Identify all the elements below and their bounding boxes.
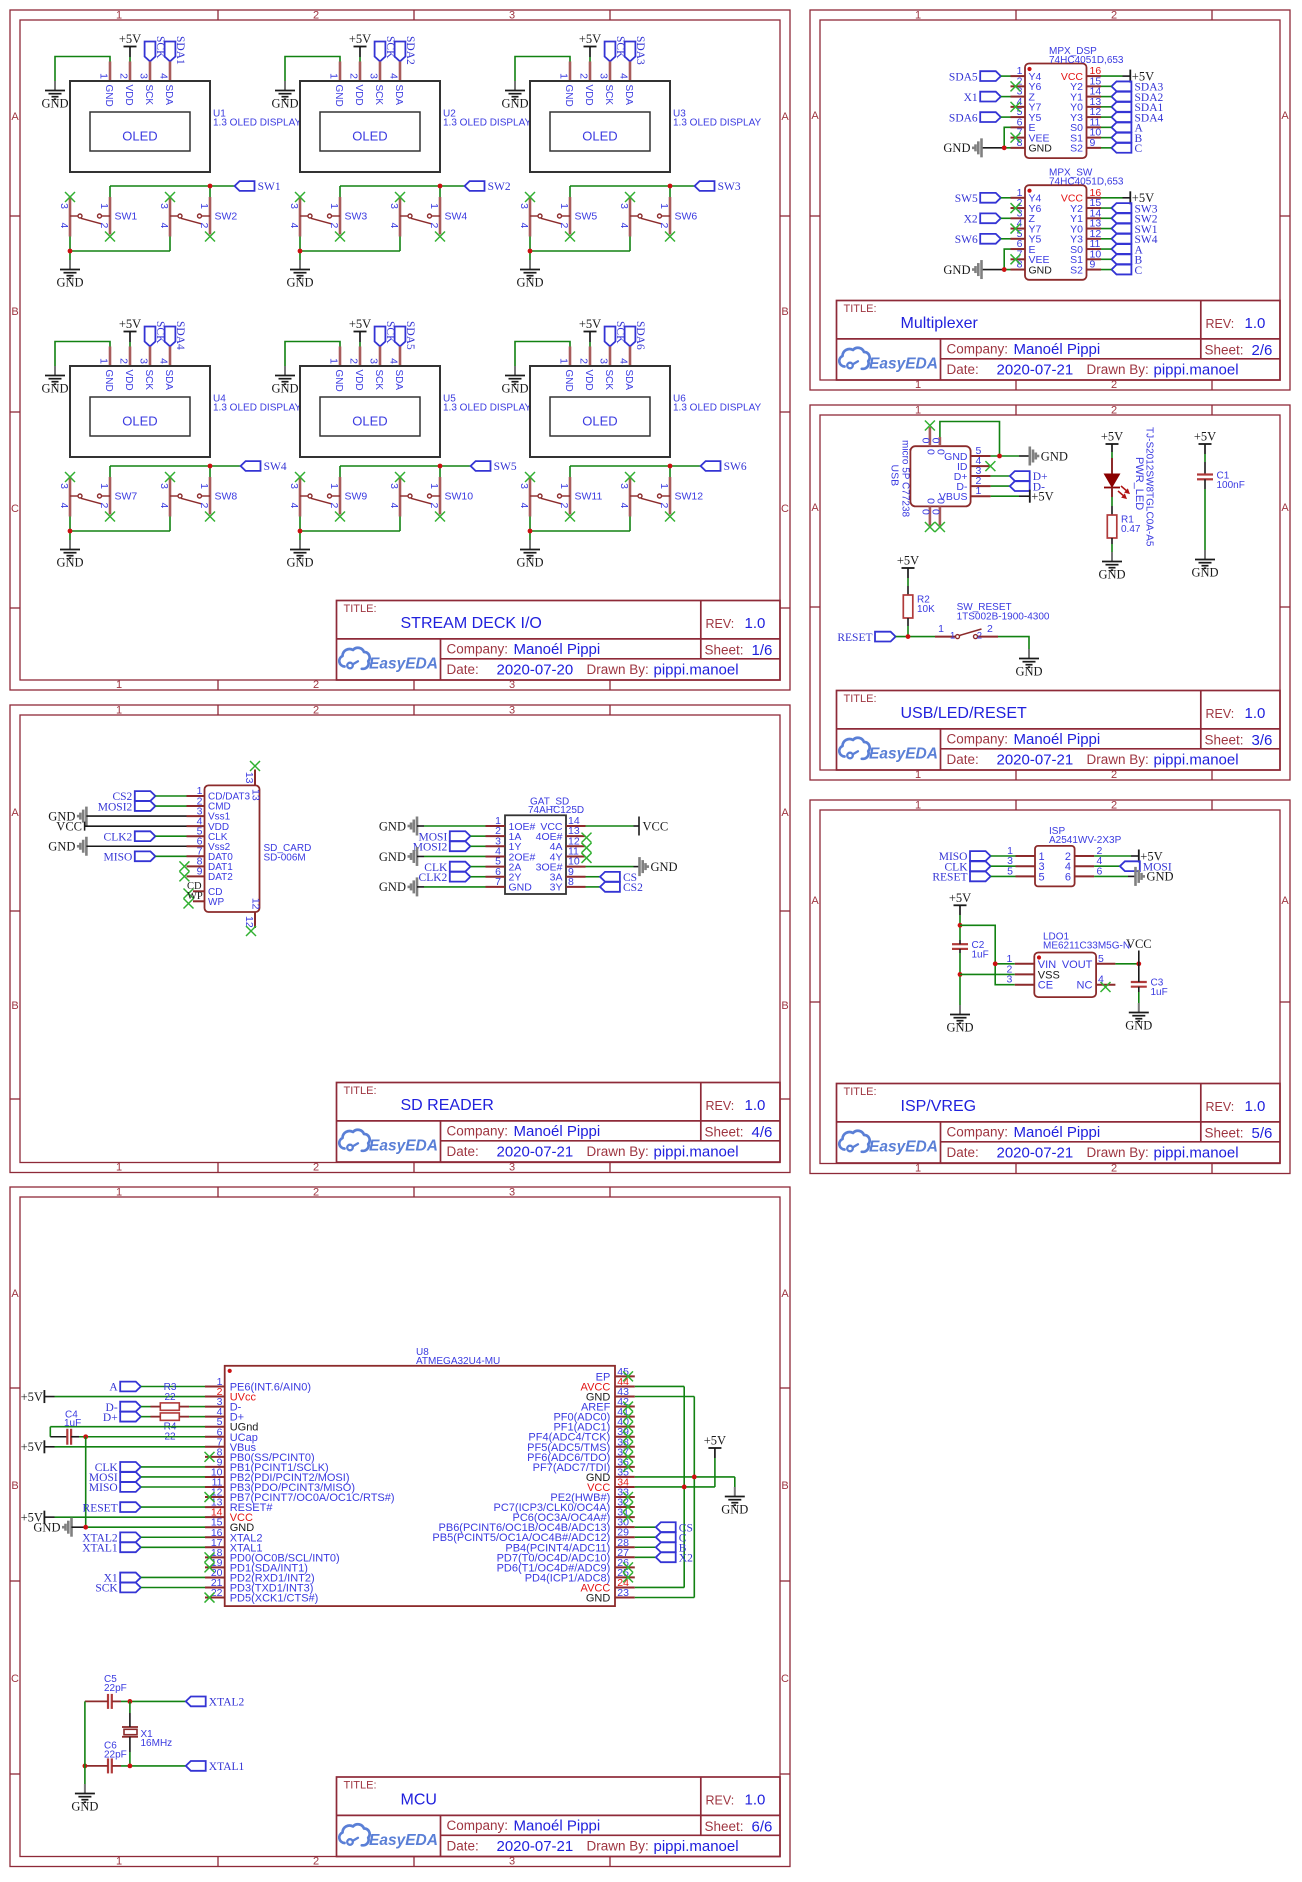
wire SW_RESET to GND xyxy=(998,637,1029,649)
svg-text:3: 3 xyxy=(138,358,150,364)
svg-text:SDA: SDA xyxy=(163,370,174,391)
svg-text:Drawn By:: Drawn By: xyxy=(1087,752,1149,767)
wire pin1 U1 to GND xyxy=(55,57,110,82)
svg-text:2: 2 xyxy=(198,503,210,509)
wire XTAL1 xyxy=(141,1546,205,1548)
svg-text:GND: GND xyxy=(41,97,68,111)
svg-text:EasyEDA: EasyEDA xyxy=(869,1139,938,1156)
svg-text:4: 4 xyxy=(618,223,630,229)
wire VIN xyxy=(995,963,1015,965)
wire GND pin15 xyxy=(72,1526,206,1528)
svg-text:SCK: SCK xyxy=(373,85,384,106)
svg-text:8: 8 xyxy=(568,876,574,888)
svg-text:Manoél Pippi: Manoél Pippi xyxy=(514,1123,601,1140)
ground GND (C3) xyxy=(1125,1003,1152,1033)
svg-text:1: 1 xyxy=(116,705,122,717)
svg-text:VCC: VCC xyxy=(643,819,669,833)
svg-text:4: 4 xyxy=(388,358,400,364)
svg-text:C: C xyxy=(1135,265,1143,277)
svg-text:GND: GND xyxy=(103,370,114,392)
net flag SW2 xyxy=(465,181,511,193)
svg-text:SDA: SDA xyxy=(623,370,634,391)
svg-text:GND: GND xyxy=(1147,870,1174,884)
wire USB shield to GND xyxy=(940,422,1000,457)
net flag SDA3 (MPX_DSP pin 15) xyxy=(1112,81,1164,93)
junction on net SW2 xyxy=(438,184,443,189)
svg-text:A: A xyxy=(781,1288,789,1300)
wire VBus xyxy=(44,1446,205,1448)
junction GND rail xyxy=(528,529,533,534)
+5V supply (C1) xyxy=(1194,430,1216,445)
svg-text:1: 1 xyxy=(98,483,110,489)
svg-text:1: 1 xyxy=(915,10,921,22)
ground GND (OLED U4) xyxy=(41,366,68,396)
svg-text:SDA: SDA xyxy=(393,370,404,391)
svg-text:SW5: SW5 xyxy=(955,193,978,205)
net flag SW5 (MPX_SW pin 1) xyxy=(955,193,1001,205)
svg-text:GND: GND xyxy=(721,1503,748,1517)
wire ISP 6 to GND xyxy=(1094,875,1135,877)
ground GND (OLED U6) xyxy=(501,366,528,396)
switch SW7 xyxy=(70,477,110,517)
svg-text:1.3 OLED DISPLAY: 1.3 OLED DISPLAY xyxy=(213,403,302,414)
svg-text:7: 7 xyxy=(495,876,501,888)
svg-text:EasyEDA: EasyEDA xyxy=(869,356,938,373)
svg-text:2: 2 xyxy=(558,503,570,509)
svg-text:2: 2 xyxy=(98,223,110,229)
svg-text:GND: GND xyxy=(333,370,344,392)
title block sheet 1 xyxy=(337,601,781,681)
svg-text:5: 5 xyxy=(1098,953,1104,965)
svg-text:SW3: SW3 xyxy=(345,211,368,223)
svg-text:A: A xyxy=(811,502,819,514)
wire VSS xyxy=(960,973,1015,975)
ground GND (Vss2) xyxy=(48,837,86,856)
wire net SW6 (top rail) xyxy=(570,466,701,477)
capacitor C2 1uF xyxy=(952,940,989,961)
svg-text:4: 4 xyxy=(388,73,400,79)
svg-text:ATMEGA32U4-MU: ATMEGA32U4-MU xyxy=(416,1356,500,1367)
svg-text:A: A xyxy=(811,895,819,907)
svg-text:1: 1 xyxy=(658,203,670,209)
no-connect marks SW4 xyxy=(395,192,445,242)
svg-text:1.0: 1.0 xyxy=(745,615,766,632)
wire GND pin35 xyxy=(635,1477,735,1487)
net flag C (pin29) xyxy=(635,1536,656,1538)
wire VOUT to VCC node xyxy=(1115,963,1138,965)
OLED display U2 body xyxy=(300,81,440,172)
wire XTAL1 row xyxy=(85,1765,186,1767)
svg-text:OLED: OLED xyxy=(582,414,617,429)
svg-text:2: 2 xyxy=(313,1162,319,1174)
svg-text:2: 2 xyxy=(1111,800,1117,812)
pin names MPX_SW xyxy=(1029,193,1084,277)
svg-text:0: 0 xyxy=(930,509,942,515)
wire pin1 U3 to GND xyxy=(515,57,570,82)
pin numbers GAT_SD xyxy=(495,815,580,888)
svg-text:3Y: 3Y xyxy=(550,882,563,894)
svg-text:22: 22 xyxy=(211,1587,223,1599)
svg-text:B: B xyxy=(11,306,18,318)
pin names GND VDD SCK SDA (U4) xyxy=(103,370,174,392)
svg-text:2: 2 xyxy=(658,223,670,229)
svg-text:Manoél Pippi: Manoél Pippi xyxy=(514,641,601,658)
svg-text:GND: GND xyxy=(1041,449,1068,463)
wire CLK xyxy=(141,1466,205,1468)
ground GND (OLED U3) xyxy=(501,81,528,111)
designator U8 ATMEGA32U4-MU xyxy=(416,1347,500,1367)
svg-text:2: 2 xyxy=(198,223,210,229)
wire E to GND net (MPX_SW) xyxy=(982,249,1011,269)
svg-text:1: 1 xyxy=(328,483,340,489)
svg-text:RESET: RESET xyxy=(932,872,967,884)
svg-text:1/6: 1/6 xyxy=(752,642,773,659)
svg-text:GND: GND xyxy=(56,276,83,290)
wire Vss2 xyxy=(86,845,186,847)
pin names SD_CARD xyxy=(208,789,262,910)
svg-text:C: C xyxy=(781,1673,789,1685)
switch SW9 xyxy=(300,477,340,517)
wire XTAL2 row xyxy=(85,1700,186,1702)
svg-text:WP: WP xyxy=(187,891,203,902)
wire pin1 U2 to GND xyxy=(285,57,340,82)
svg-text:+5V: +5V xyxy=(897,554,919,568)
svg-text:2020-07-21: 2020-07-21 xyxy=(497,1838,574,1855)
pin numbers MPX_DSP xyxy=(1017,65,1102,149)
svg-text:A: A xyxy=(1281,895,1289,907)
svg-text:Sheet:: Sheet: xyxy=(705,643,744,658)
ground GND (switches) xyxy=(56,540,83,570)
svg-text:S2: S2 xyxy=(1070,264,1083,276)
wire +5V to C1 xyxy=(1204,444,1206,475)
svg-text:EasyEDA: EasyEDA xyxy=(369,1138,438,1155)
svg-text:pippi.manoel: pippi.manoel xyxy=(654,1144,739,1161)
IC LDO1 ME6211C33M5G-N xyxy=(1015,953,1116,998)
svg-text:3: 3 xyxy=(518,483,530,489)
wire XTAL2 xyxy=(141,1536,205,1538)
netlabel VCC xyxy=(1126,937,1152,964)
svg-text:TJ-S2012SW8TGLC0A-A5: TJ-S2012SW8TGLC0A-A5 xyxy=(1143,427,1154,547)
wire 2OE# xyxy=(417,855,486,857)
pin numbers SW9 xyxy=(288,483,340,508)
+5V supply (VBUS) xyxy=(1030,490,1054,504)
sheet 1 frame: STREAM DECK I/O xyxy=(10,10,790,690)
net flag CS2 xyxy=(600,882,643,894)
svg-text:3: 3 xyxy=(368,73,380,79)
net flag X1 (pin20) xyxy=(104,1573,141,1585)
svg-text:GND: GND xyxy=(946,1021,973,1035)
sheet 3 frame: USB/LED/RESET xyxy=(810,405,1290,780)
svg-text:Date:: Date: xyxy=(447,1144,479,1159)
wire B xyxy=(1101,258,1112,260)
wire net SW3 (top rail) xyxy=(570,186,695,197)
svg-text:GND: GND xyxy=(379,850,406,864)
junction GND (MPX_SW) xyxy=(1002,267,1007,272)
net flag SDA6 (MPX_DSP pin 5) xyxy=(949,112,1001,124)
svg-text:GND: GND xyxy=(501,97,528,111)
svg-text:SW2: SW2 xyxy=(215,211,238,223)
svg-text:C: C xyxy=(11,503,19,515)
sheet 6 frame: MCU xyxy=(10,1187,790,1867)
svg-text:DAT2: DAT2 xyxy=(208,872,233,883)
net flag CLK (ISP 3) xyxy=(945,861,991,873)
svg-text:1: 1 xyxy=(915,800,921,812)
net flag SW3 xyxy=(695,181,741,193)
svg-text:12: 12 xyxy=(243,916,255,928)
svg-text:VDD: VDD xyxy=(583,370,594,391)
wire RESET xyxy=(991,875,1016,877)
net flag SW2 (MPX_SW pin 14) xyxy=(1112,213,1158,225)
svg-text:1: 1 xyxy=(558,203,570,209)
+5V supply (LED branch) xyxy=(1101,430,1123,445)
net flag MOSI (1A) xyxy=(419,831,471,843)
wire SW5 xyxy=(1001,197,1011,199)
svg-text:CE: CE xyxy=(1038,980,1053,992)
pin numbers SW10 xyxy=(388,483,440,508)
no-connect marks U8 right xyxy=(623,1371,633,1582)
no-connect marks SW10 xyxy=(395,472,445,522)
no-connect marks SW8 xyxy=(165,472,215,522)
net flag RESET (ISP 5) xyxy=(932,872,990,884)
IC U8 ATMEGA32U4-MU body xyxy=(205,1366,635,1606)
svg-text:22pF: 22pF xyxy=(104,1683,127,1694)
svg-text:OLED: OLED xyxy=(582,129,617,144)
junction on net SW5 xyxy=(438,464,443,469)
svg-text:B: B xyxy=(781,1480,788,1492)
wire SW3 xyxy=(1101,207,1112,209)
svg-text:GND: GND xyxy=(563,370,574,392)
ground GND (crystal) xyxy=(71,1784,98,1814)
svg-text:3: 3 xyxy=(618,203,630,209)
svg-text:REV:: REV: xyxy=(1206,317,1235,331)
svg-text:9: 9 xyxy=(1090,137,1096,149)
svg-text:2: 2 xyxy=(118,358,130,364)
designator ISP A2541WV-2X3P xyxy=(1049,826,1122,846)
designator U6 / 1.3 OLED DISPLAY xyxy=(673,394,762,414)
wire D- xyxy=(991,485,1010,487)
svg-text:1: 1 xyxy=(428,203,440,209)
svg-text:REV:: REV: xyxy=(1206,707,1235,721)
capacitor C3 1uF xyxy=(1131,978,1168,999)
pin names GND VDD SCK SDA (U3) xyxy=(563,85,634,107)
title block sheet 2 xyxy=(837,301,1281,381)
wire +5V to LED xyxy=(1111,444,1113,474)
ground GND (C1) xyxy=(1191,550,1218,580)
resistor R3 22 xyxy=(160,1382,179,1410)
junction USB GND xyxy=(997,454,1002,459)
svg-text:2: 2 xyxy=(313,1856,319,1868)
svg-text:1.3 OLED DISPLAY: 1.3 OLED DISPLAY xyxy=(213,118,302,129)
pin names GND VDD SCK SDA (U1) xyxy=(103,85,174,107)
wire 1A xyxy=(470,835,485,837)
no-connect marks pins 2,4,7 (MPX_SW) xyxy=(1011,203,1021,264)
switch SW_RESET 1TS002B-1900-4300 xyxy=(935,629,998,639)
svg-text:Drawn By:: Drawn By: xyxy=(1087,362,1149,377)
net flag SDA1 (MPX_DSP pin 13) xyxy=(1112,102,1164,114)
svg-text:ISP/VREG: ISP/VREG xyxy=(901,1098,977,1115)
svg-text:Date:: Date: xyxy=(447,1839,479,1854)
svg-text:GND: GND xyxy=(1125,1019,1152,1033)
svg-text:3: 3 xyxy=(288,203,300,209)
ground GND (switches) xyxy=(286,260,313,290)
net flag MISO (pin11) xyxy=(89,1482,141,1494)
svg-text:Manoél Pippi: Manoél Pippi xyxy=(1014,731,1101,748)
sheet 4 frame: SD READER xyxy=(10,705,790,1173)
wire D+ xyxy=(991,475,1010,477)
wire +5V to pin2 U4 xyxy=(129,332,131,347)
net flag X2 (pin27) xyxy=(635,1556,656,1558)
svg-text:MOSI2: MOSI2 xyxy=(98,801,133,813)
svg-text:Sheet:: Sheet: xyxy=(705,1819,744,1834)
junction GND rail xyxy=(68,249,73,254)
svg-text:C: C xyxy=(1135,143,1143,155)
svg-text:SW12: SW12 xyxy=(675,491,704,503)
svg-text:2: 2 xyxy=(98,503,110,509)
wire ISP 2 to +5V xyxy=(1094,855,1139,857)
svg-text:D+: D+ xyxy=(103,1412,118,1424)
wire VCC pin16 to +5V (MPX_SW) xyxy=(1101,197,1130,199)
pin numbers SW8 xyxy=(158,483,210,508)
svg-text:4: 4 xyxy=(288,223,300,229)
net flag CLK2 xyxy=(104,831,156,843)
wire USB GND pin5 xyxy=(991,455,1030,457)
svg-text:VDD: VDD xyxy=(353,370,364,391)
svg-text:A: A xyxy=(11,807,19,819)
svg-text:2020-07-21: 2020-07-21 xyxy=(497,1144,574,1161)
svg-text:Company:: Company: xyxy=(447,642,509,657)
svg-text:SW3: SW3 xyxy=(718,181,741,193)
svg-text:MCU: MCU xyxy=(401,1792,437,1809)
svg-text:TITLE:: TITLE: xyxy=(344,1085,377,1097)
svg-text:22: 22 xyxy=(164,1392,176,1403)
ground GND (Vss1) xyxy=(48,807,86,826)
net flag SCK (U1) xyxy=(145,36,166,61)
pin numbers SW2 xyxy=(158,203,210,228)
svg-text:1: 1 xyxy=(938,623,944,635)
wire X2 xyxy=(1001,217,1011,219)
wire GND rail (switches) xyxy=(70,517,170,541)
svg-text:3: 3 xyxy=(618,483,630,489)
svg-text:3: 3 xyxy=(509,1856,515,1868)
svg-text:GND: GND xyxy=(56,556,83,570)
wire GND rail (switches) xyxy=(300,237,400,261)
svg-text:SDA6: SDA6 xyxy=(634,321,646,350)
ground GND (MPX_DSP) xyxy=(943,138,981,157)
svg-text:MISO: MISO xyxy=(89,1482,118,1494)
svg-text:13: 13 xyxy=(243,772,255,784)
no-connect marks SW2 xyxy=(165,192,215,242)
svg-text:3: 3 xyxy=(509,705,515,717)
svg-text:3: 3 xyxy=(288,483,300,489)
no-connect marks SW12 xyxy=(625,472,675,522)
resistor R1 0.47 xyxy=(1107,515,1141,539)
svg-text:OLED: OLED xyxy=(352,129,387,144)
junction VOUT xyxy=(1136,961,1141,966)
svg-text:1.0: 1.0 xyxy=(1245,315,1266,332)
net flag C (MPX_SW pin 9) xyxy=(1112,265,1143,277)
crystal X1 16MHz xyxy=(122,1727,172,1749)
svg-text:Manoél Pippi: Manoél Pippi xyxy=(1014,1124,1101,1141)
switch SW5 xyxy=(530,197,570,237)
ground GND (pin10) xyxy=(640,857,678,876)
switch SW3 xyxy=(300,197,340,237)
pins 1-4 of U5 xyxy=(340,347,400,367)
switch SW6 xyxy=(630,197,670,237)
svg-text:VDD: VDD xyxy=(123,370,134,391)
svg-text:Date:: Date: xyxy=(947,362,979,377)
svg-text:Sheet:: Sheet: xyxy=(1205,343,1244,358)
wire SDA3 xyxy=(1101,85,1112,87)
pin names GAT_SD xyxy=(509,821,563,894)
svg-text:2: 2 xyxy=(313,1187,319,1199)
svg-text:+5V: +5V xyxy=(949,891,971,905)
svg-text:3: 3 xyxy=(1006,974,1012,986)
wire net SW1 (top rail) xyxy=(110,186,235,197)
wire D+ through R4 xyxy=(141,1416,205,1418)
wire SDA6 xyxy=(1001,116,1011,118)
svg-text:A: A xyxy=(109,1382,118,1394)
svg-text:Company:: Company: xyxy=(447,1124,509,1139)
svg-text:+5V: +5V xyxy=(21,1440,43,1454)
IC GAT_SD 74AHC125D xyxy=(486,815,586,894)
net flag D+ xyxy=(1010,471,1048,483)
junction on net SW3 xyxy=(668,184,673,189)
junction VSS node xyxy=(958,972,963,977)
sheet 2 frame: Multiplexer xyxy=(810,10,1290,390)
svg-text:SW4: SW4 xyxy=(445,211,468,223)
svg-text:SW5: SW5 xyxy=(575,211,598,223)
wire +5V to pin2 U2 xyxy=(359,47,361,62)
+5V supply (OLED U5) xyxy=(349,317,371,332)
svg-text:4: 4 xyxy=(158,223,170,229)
ground GND (pin35) xyxy=(721,1487,748,1517)
wire C3 to GND xyxy=(1138,987,1140,1003)
net flag SW1 (MPX_SW pin 13) xyxy=(1112,224,1158,236)
wire GND rail (switches) xyxy=(530,237,630,261)
svg-text:SW1: SW1 xyxy=(258,181,281,193)
wire 1Y xyxy=(470,845,485,847)
svg-text:2: 2 xyxy=(558,223,570,229)
svg-text:REV:: REV: xyxy=(706,1794,735,1808)
svg-text:RESET: RESET xyxy=(837,632,872,644)
svg-text:4: 4 xyxy=(388,503,400,509)
svg-text:X2: X2 xyxy=(679,1553,693,1565)
wire pin1 U4 to GND xyxy=(55,342,110,367)
svg-text:B: B xyxy=(11,1480,18,1492)
svg-text:1: 1 xyxy=(658,483,670,489)
wire pin1 U6 to GND xyxy=(515,342,570,367)
svg-text:GND: GND xyxy=(501,382,528,396)
wire C1 to GND xyxy=(1204,479,1206,550)
svg-text:GND: GND xyxy=(103,85,114,107)
net flag A (MPX_DSP pin 11) xyxy=(1112,122,1144,134)
wire VCC pin14 xyxy=(44,1516,205,1518)
+5V supply (OLED U6) xyxy=(579,317,601,332)
pin numbers 1-4 (U6) xyxy=(558,358,630,364)
svg-text:0: 0 xyxy=(930,438,942,444)
IC MPX_DSP 74HC4051D,653 xyxy=(1011,64,1102,159)
switch SW12 xyxy=(630,477,670,517)
switch SW8 xyxy=(170,477,210,517)
svg-text:2: 2 xyxy=(118,73,130,79)
pin numbers SW_RESET xyxy=(938,623,993,642)
svg-text:A: A xyxy=(1281,502,1289,514)
svg-text:3: 3 xyxy=(368,358,380,364)
svg-text:2: 2 xyxy=(1111,1163,1117,1175)
svg-text:VCC: VCC xyxy=(56,819,82,833)
junction GND rail xyxy=(68,529,73,534)
designator GAT_SD 74AHC125D xyxy=(528,797,584,817)
